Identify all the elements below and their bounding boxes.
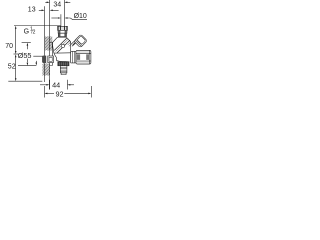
compression nut top — [58, 26, 68, 30]
svg-text:92: 92 — [56, 90, 64, 99]
node dim 70 — [14, 26, 61, 55]
node dim diameter 10 — [51, 17, 87, 19]
wall hatching lower — [42, 64, 50, 76]
svg-text:34: 34 — [53, 1, 61, 8]
wire wall face line — [49, 0, 51, 90]
node dim 92 — [44, 86, 91, 98]
outlet compression nut — [76, 50, 91, 64]
inlet pipe — [60, 14, 62, 26]
handle neck — [71, 41, 77, 47]
node dim 13 — [39, 10, 59, 12]
wire flange front extension line — [44, 6, 46, 82]
handle knob — [74, 34, 87, 47]
pipe hole outline — [33, 56, 42, 62]
svg-text:G: G — [24, 28, 29, 35]
connection boss — [48, 56, 54, 63]
compression nut lower band — [58, 30, 67, 33]
wall thread block — [43, 56, 47, 63]
bonnet — [58, 33, 66, 36]
svg-text:70: 70 — [5, 43, 13, 50]
svg-text:44: 44 — [52, 81, 60, 90]
body knurled ring — [58, 62, 69, 66]
svg-text:52: 52 — [8, 64, 16, 71]
svg-text:/2: /2 — [31, 30, 35, 36]
outlet union — [71, 51, 76, 63]
svg-text:Ø10: Ø10 — [74, 13, 87, 20]
drain stub threaded — [60, 66, 67, 75]
node dim 34 — [45, 2, 70, 4]
node dim diameter 55 — [18, 43, 37, 66]
wall hatching upper — [45, 37, 53, 51]
node dim 52 — [8, 54, 42, 81]
svg-text:13: 13 — [28, 7, 36, 14]
flange front face — [50, 43, 53, 66]
svg-text:Ø55: Ø55 — [18, 51, 32, 60]
node dim 44 — [40, 80, 74, 90]
valve body — [53, 37, 77, 63]
